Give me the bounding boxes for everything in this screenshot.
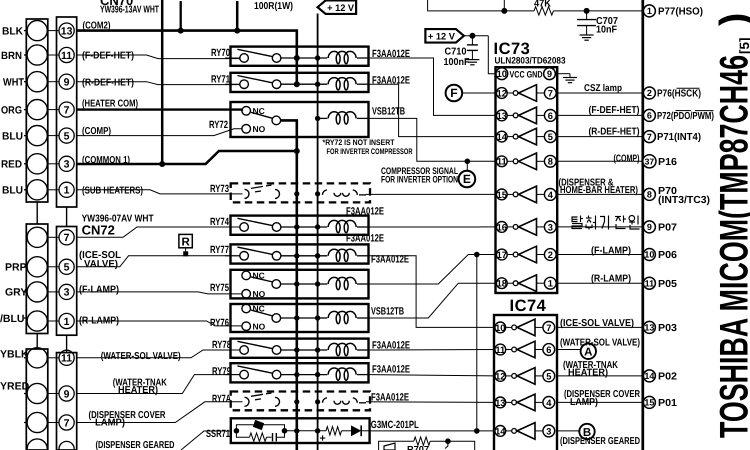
svg-text:A: A [584, 347, 592, 359]
svg-text:RY76: RY76 [210, 317, 229, 329]
svg-text:RY70: RY70 [211, 47, 230, 59]
svg-text:5: 5 [64, 130, 70, 142]
svg-text:4: 4 [548, 190, 554, 200]
svg-text:(SUB HEATERS): (SUB HEATERS) [82, 186, 143, 197]
svg-text:E: E [463, 172, 471, 186]
svg-text:6: 6 [548, 111, 553, 121]
svg-text:P76(HSCK): P76(HSCK) [657, 89, 701, 100]
svg-text:17: 17 [497, 250, 507, 260]
svg-text:1: 1 [64, 185, 70, 197]
svg-text:5: 5 [548, 132, 553, 142]
svg-text:P16: P16 [658, 157, 677, 168]
svg-text:VSB12TB: VSB12TB [372, 106, 405, 118]
svg-text:R707: R707 [407, 445, 429, 450]
svg-text:7: 7 [546, 323, 551, 333]
svg-text:VALVE): VALVE) [84, 259, 118, 270]
svg-text:10: 10 [644, 250, 654, 260]
svg-text:7: 7 [548, 88, 553, 98]
svg-text:RED: RED [1, 159, 22, 171]
svg-text:18: 18 [497, 279, 507, 289]
svg-text:6: 6 [647, 111, 652, 121]
svg-text:YRED: YRED [0, 380, 30, 392]
svg-text:(F-LAMP): (F-LAMP) [79, 285, 119, 296]
svg-text:(HEATER COM): (HEATER COM) [82, 98, 138, 109]
svg-text:15: 15 [644, 398, 654, 408]
svg-text:13: 13 [495, 398, 505, 408]
svg-text:14: 14 [497, 132, 508, 142]
svg-text:10nF: 10nF [596, 25, 617, 36]
svg-text:BLK: BLK [2, 25, 23, 37]
svg-text:YBLK: YBLK [0, 348, 29, 360]
svg-text:FOR INVERTER OPTION: FOR INVERTER OPTION [381, 175, 458, 186]
svg-text:YW396-13AV WHT: YW396-13AV WHT [100, 4, 159, 15]
svg-text:1: 1 [548, 279, 553, 289]
svg-text:VCC GND: VCC GND [510, 69, 543, 79]
svg-text:12: 12 [497, 88, 507, 98]
svg-text:(WATER-SOL VALVE): (WATER-SOL VALVE) [101, 351, 181, 362]
svg-text:HOME-BAR HEATER): HOME-BAR HEATER) [560, 185, 638, 196]
svg-text:(DISPENSER GEARED: (DISPENSER GEARED [96, 440, 175, 450]
svg-text:F3AA012E: F3AA012E [372, 364, 410, 376]
svg-text:RY7A: RY7A [212, 393, 231, 405]
svg-text:9: 9 [647, 222, 652, 232]
svg-text:1: 1 [647, 6, 652, 16]
svg-text:+ 12 V: + 12 V [428, 31, 456, 42]
svg-text:13: 13 [644, 323, 654, 333]
svg-text:F: F [450, 86, 457, 100]
svg-text:RY71: RY71 [211, 73, 230, 85]
svg-text:9: 9 [64, 77, 70, 89]
svg-text:+: + [320, 433, 326, 445]
svg-text:LAMP): LAMP) [570, 397, 598, 408]
svg-text:(WATER-SOL VALVE): (WATER-SOL VALVE) [560, 337, 640, 348]
svg-text:2: 2 [647, 88, 652, 98]
svg-text:B: B [583, 427, 591, 439]
svg-text:4: 4 [546, 398, 552, 408]
svg-text:_: _ [362, 433, 369, 445]
svg-text:3: 3 [548, 222, 553, 232]
svg-text:7: 7 [64, 232, 70, 244]
svg-text:RY72: RY72 [209, 119, 228, 131]
svg-text:9: 9 [64, 388, 70, 400]
svg-text:RY79: RY79 [212, 366, 231, 378]
svg-text:IC74: IC74 [510, 297, 547, 315]
svg-text:3: 3 [64, 287, 70, 299]
svg-text:CN72: CN72 [82, 223, 115, 238]
svg-text:5: 5 [546, 371, 551, 381]
svg-text:11: 11 [495, 345, 505, 355]
svg-text:[5]: [5] [737, 38, 750, 55]
svg-text:14: 14 [495, 426, 506, 436]
svg-text:8: 8 [647, 190, 652, 200]
svg-text:F3AA012E: F3AA012E [372, 75, 410, 87]
svg-text:(F-DEF-HET): (F-DEF-HET) [589, 105, 640, 116]
svg-text:11: 11 [645, 278, 655, 288]
svg-text:11: 11 [61, 353, 72, 365]
svg-text:RY73: RY73 [210, 183, 229, 195]
svg-text:P06: P06 [658, 250, 677, 261]
svg-text:P77(HSO): P77(HSO) [658, 7, 703, 18]
svg-text:100R(1W): 100R(1W) [254, 1, 293, 12]
svg-text:GRY: GRY [5, 287, 27, 299]
svg-text:P03: P03 [658, 323, 677, 334]
svg-text:P05: P05 [658, 279, 677, 290]
svg-text:LAMP): LAMP) [95, 418, 125, 429]
svg-text:NO: NO [253, 321, 266, 331]
svg-text:PRP: PRP [5, 262, 27, 274]
svg-text:10: 10 [495, 323, 505, 333]
svg-text:RY77: RY77 [210, 244, 229, 256]
svg-text:R: R [181, 236, 190, 248]
svg-text:P72(PDO/PWM): P72(PDO/PWM) [657, 111, 714, 122]
svg-text:7: 7 [64, 417, 70, 429]
svg-text:P07: P07 [658, 223, 677, 234]
svg-text:HEATER): HEATER) [118, 385, 158, 396]
svg-text:14: 14 [644, 371, 654, 381]
svg-text:ULN2803/TD62083: ULN2803/TD62083 [495, 56, 566, 66]
svg-text:(INT3/TC3): (INT3/TC3) [658, 195, 710, 206]
svg-text:VSB12TB: VSB12TB [371, 306, 404, 318]
svg-text:11: 11 [61, 50, 72, 62]
svg-text:P02: P02 [658, 372, 677, 383]
svg-text:FOR INVERTER COMPRESSOR: FOR INVERTER COMPRESSOR [327, 147, 413, 156]
svg-text:HEATER): HEATER) [568, 368, 608, 379]
svg-text:/BLU: /BLU [0, 313, 25, 325]
svg-text:15: 15 [497, 190, 507, 200]
svg-text:3: 3 [64, 159, 70, 171]
svg-text:RY78: RY78 [212, 339, 231, 351]
svg-text:(R-DEF-HET): (R-DEF-HET) [82, 77, 134, 88]
svg-text:*RY72 IS NOT INSERT: *RY72 IS NOT INSERT [323, 138, 395, 147]
svg-text:ORG: ORG [1, 104, 22, 116]
svg-text:(R-LAMP): (R-LAMP) [591, 274, 631, 285]
svg-text:7: 7 [647, 132, 652, 142]
svg-text:BLU: BLU [2, 130, 23, 142]
svg-text:CSZ lamp: CSZ lamp [584, 83, 622, 94]
svg-text:BRN: BRN [1, 50, 22, 62]
svg-text:TOSHIBA MICOM(TMP87CH46: TOSHIBA MICOM(TMP87CH46 [713, 55, 750, 438]
svg-text:3: 3 [546, 426, 551, 436]
svg-text:WHT: WHT [3, 77, 25, 89]
svg-text:RY74: RY74 [210, 216, 229, 228]
svg-text:9: 9 [547, 69, 552, 79]
svg-text:2: 2 [548, 250, 553, 260]
svg-text:7: 7 [64, 104, 70, 116]
svg-text:13: 13 [497, 111, 507, 121]
svg-text:P01: P01 [658, 398, 677, 409]
svg-text:P71(INT4): P71(INT4) [657, 132, 701, 143]
svg-text:NO: NO [253, 289, 266, 299]
svg-text:F3AA012E: F3AA012E [346, 206, 384, 218]
svg-text:BLU: BLU [2, 185, 23, 197]
svg-text:SSR71: SSR71 [206, 428, 230, 440]
svg-text:47K: 47K [534, 0, 552, 10]
svg-text:8: 8 [548, 157, 553, 167]
svg-text:RY75: RY75 [210, 282, 229, 294]
svg-text:(F-LAMP): (F-LAMP) [591, 245, 631, 256]
svg-text:11: 11 [497, 157, 507, 167]
svg-text:1: 1 [64, 316, 70, 328]
svg-text:(DISPENSER GEARED: (DISPENSER GEARED [560, 436, 640, 447]
svg-text:(F-DEF-HET): (F-DEF-HET) [82, 51, 134, 62]
svg-text:F3AA012E: F3AA012E [346, 233, 384, 245]
svg-text:): ) [713, 13, 750, 26]
svg-text:5: 5 [64, 262, 70, 274]
svg-text:100nF: 100nF [444, 57, 470, 68]
svg-text:NO: NO [253, 124, 266, 134]
svg-text:+ 12 V: + 12 V [327, 3, 355, 14]
svg-text:(COMP): (COMP) [614, 154, 640, 165]
svg-text:(R-DEF-HET): (R-DEF-HET) [589, 127, 640, 138]
svg-text:13: 13 [61, 25, 73, 37]
svg-text:16: 16 [497, 222, 507, 232]
svg-text:6: 6 [546, 345, 551, 355]
svg-text:(ICE-SOL VALVE): (ICE-SOL VALVE) [560, 318, 634, 329]
svg-text:10: 10 [497, 69, 507, 79]
svg-text:G3MC-201PL: G3MC-201PL [371, 419, 419, 431]
svg-text:37: 37 [645, 157, 655, 167]
svg-text:12: 12 [495, 371, 505, 381]
